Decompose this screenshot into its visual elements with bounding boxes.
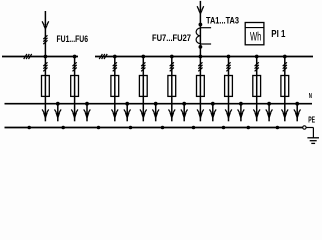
node on phase bus, feeder 1 [44,55,48,59]
conductor-count slashes on left bus [24,54,32,59]
fuse FU25..FU27 [281,76,289,97]
arrow on incoming supply line 1 [42,21,49,30]
junction on PE bus #8 [247,126,251,130]
wire: feeder drop 5 [171,57,173,104]
node on N bus, feeder 6 [211,102,215,106]
arrow on incoming supply line 2 [197,6,204,15]
arrow: outgoing line 3a [112,104,119,122]
wire: feeder drop 7 [228,57,230,104]
bus L1,L2,L3 left section [2,56,78,58]
arrow: outgoing line 1a [42,104,49,122]
junction on PE bus #3 [97,126,101,130]
junction on PE bus #1 [27,126,31,130]
arrow: outgoing line 2a [71,104,78,122]
node: CT top junction [199,23,203,27]
node on phase bus, feeder 3 [113,55,117,59]
wire: feeder drop 6 [199,57,201,104]
fuse FU4..FU6 [71,76,79,97]
junction on PE bus #4 [129,126,133,130]
arrow: outgoing line 6a [197,104,204,122]
bus L1,L2,L3 right section [95,56,313,58]
arrow: outgoing line 7b [238,104,245,122]
fuse FU22..FU24 [253,76,261,97]
label PI1 [271,29,286,40]
arrow: outgoing line 6b [210,104,217,122]
arrow: outgoing line 4b [152,104,159,122]
wire: feeder drop 1 [44,57,46,104]
bus N [5,103,313,105]
label N [309,91,312,100]
arrow: outgoing line 4a [140,104,147,122]
node on phase bus, feeder 2 [73,55,77,59]
conductor-count slashes on feeder drop 8 [255,62,259,71]
CT secondary taps [200,28,211,44]
junction on PE bus #7 [222,126,226,130]
conductor-count slashes on feeder drop 1 [43,62,47,71]
arrow: outgoing line 1b [55,104,62,122]
node on phase bus, feeder 4 [141,55,145,59]
junction on PE bus #6 [192,126,196,130]
node on N bus, feeder 5 [182,102,186,106]
label FU7...FU27 [152,33,191,43]
wire: PE to earth [306,128,313,138]
node on N bus, feeder 1 [56,102,60,106]
arrow: outgoing line 7a [225,104,232,122]
arrow: outgoing line 2b [84,104,91,122]
arrow: outgoing line 5b [181,104,188,122]
conductor-count slashes on right bus [99,54,107,59]
wire: feeder drop 9 [284,57,286,104]
node: CT bottom junction [199,45,203,49]
node on phase bus, feeder 5 [170,55,174,59]
node on N bus, feeder 3 [125,102,129,106]
conductor-count slashes on feeder drop 2 [73,62,77,71]
meter PI1 box [245,23,264,45]
fuse FU19..FU21 [225,76,233,97]
arrow: outgoing line 9a [282,104,289,122]
svg-text:PE: PE [308,114,315,124]
arrow: outgoing line 8a [253,104,260,122]
conductor-count slashes on feeder drop 5 [170,62,174,71]
terminal circle on PE bus [303,126,306,129]
wire: incoming supply line 2 (metered) [199,1,201,57]
fuse FU7..FU9 [111,76,119,97]
arrow: outgoing line 5a [169,104,176,122]
wire: feeder drop 2 [74,57,76,104]
svg-text:FU7...FU27: FU7...FU27 [152,33,191,43]
svg-text:FU1...FU6: FU1...FU6 [57,34,89,44]
ground symbol [307,138,319,144]
wire: feeder drop 8 [256,57,258,104]
node on phase bus, feeder 9 [283,55,287,59]
node on N bus, feeder 8 [267,102,271,106]
wire: feeder drop 3 [114,57,116,104]
node on N bus, feeder 7 [239,102,243,106]
node on N bus, feeder 2 [85,102,89,106]
fuse FU1..FU3 [42,76,50,97]
node on phase bus, feeder 8 [255,55,259,59]
conductor-count slashes on feeder drop 9 [283,62,287,71]
junction on PE bus #5 [161,126,165,130]
arrow: outgoing line 9b [294,104,301,122]
label TA1...TA3 [206,16,239,27]
arrow: outgoing line 8b [266,104,273,122]
arrow: outgoing line 3b [124,104,131,122]
fuse FU16..FU18 [197,76,205,97]
conductor-count slashes on incoming line 1 [43,35,47,44]
conductor-count slashes on feeder drop 4 [141,62,145,71]
conductor-count slashes on feeder drop 3 [113,62,117,71]
fuse FU13..FU15 [168,76,176,97]
bus PE [5,127,303,129]
node on N bus, feeder 9 [295,102,299,106]
node on phase bus, feeder 6 [199,55,203,59]
svg-text:PI 1: PI 1 [271,29,286,40]
label Wh [250,29,261,43]
junction on PE bus #9 [276,126,280,130]
svg-text:TA1...TA3: TA1...TA3 [206,16,239,27]
node on phase bus, feeder 7 [227,55,231,59]
conductor-count slashes on feeder drop 6 [198,62,202,71]
label PE [308,114,315,124]
label FU1...FU6 [57,34,89,44]
junction on PE bus #2 [61,126,65,130]
node on N bus, feeder 4 [154,102,158,106]
svg-text:Wh: Wh [250,29,261,43]
wire: incoming supply line 1 [44,11,46,57]
current transformer TA1...TA3 [196,28,200,44]
svg-text:N: N [309,91,312,100]
fuse FU10..FU12 [139,76,147,97]
wire: feeder drop 4 [142,57,144,104]
conductor-count slashes on feeder drop 7 [226,62,230,71]
